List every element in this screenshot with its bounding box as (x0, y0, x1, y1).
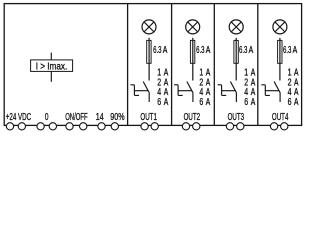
channel separator wall 3 (257, 4, 259, 126)
svg-text:A: A (206, 45, 211, 56)
svg-text:A: A (206, 97, 211, 108)
switch actuator hook channel 3 (218, 85, 227, 96)
OUT3 terminal a (226, 123, 233, 130)
terminal 90% (111, 123, 118, 130)
OUT2 terminal a (182, 123, 189, 130)
svg-text:A: A (293, 45, 298, 56)
fuse F4 6.3 A (278, 40, 282, 63)
svg-text:90%: 90% (110, 112, 124, 123)
wire switch to OUT2 (192, 92, 194, 102)
svg-text:I > Imax.: I > Imax. (36, 62, 68, 73)
tap label 6 A channel 3 (244, 97, 255, 108)
svg-text:6: 6 (199, 97, 203, 108)
wire lamp to fuse channel 3 (235, 38, 237, 81)
svg-text:OUT1: OUT1 (140, 112, 157, 123)
switch actuator hook channel 4 (261, 85, 270, 96)
svg-text:14: 14 (96, 112, 104, 123)
fuse rating label 6.3 A channel 3 (239, 45, 253, 56)
svg-text:A: A (249, 45, 254, 56)
terminal 14 (98, 123, 105, 130)
tap label 6 A channel 1 (157, 97, 168, 108)
svg-text:6: 6 (157, 97, 161, 108)
switch actuator hook channel 2 (174, 85, 183, 96)
svg-text:ON/OFF: ON/OFF (65, 112, 87, 123)
svg-text:6: 6 (244, 97, 248, 108)
channel separator wall 2 (213, 4, 215, 126)
0 V terminal b (49, 123, 56, 130)
tap label 6 A channel 2 (199, 97, 210, 108)
fuse rating label 6.3 A channel 1 (153, 45, 167, 56)
svg-text:6.3: 6.3 (239, 45, 248, 56)
fuse rating label 6.3 A channel 2 (196, 45, 210, 56)
OUT2 terminal b (193, 123, 200, 130)
svg-text:A: A (163, 45, 168, 56)
actuator linkage channel 1 (134, 90, 148, 92)
tap label 6 A channel 4 (288, 97, 299, 108)
tap label 4 A channel 2 (199, 87, 210, 98)
svg-text:+24 VDC: +24 VDC (6, 112, 31, 123)
control block right edge wall (127, 4, 129, 126)
wire switch to OUT4 (279, 92, 281, 102)
wire lamp to fuse channel 4 (279, 38, 281, 81)
indicator lamp channel 4 (273, 20, 287, 34)
svg-text:6.3: 6.3 (196, 45, 205, 56)
indicator lamp channel 3 (229, 20, 243, 34)
svg-text:0: 0 (45, 112, 49, 123)
channel OUT3 group (218, 20, 256, 130)
wire switch to OUT3 (235, 92, 237, 102)
switch blade channel 3 (230, 82, 236, 93)
switch actuator hook channel 1 (130, 85, 139, 96)
svg-text:OUT4: OUT4 (272, 112, 289, 123)
fuse F3 6.3 A (234, 40, 238, 63)
svg-text:6.3: 6.3 (153, 45, 162, 56)
0 V terminal a (37, 123, 44, 130)
tap label 2 A channel 1 (157, 77, 168, 88)
actuator linkage channel 3 (222, 90, 236, 92)
channel OUT4 group (261, 20, 298, 130)
indicator lamp channel 2 (186, 20, 200, 34)
actuator linkage channel 2 (178, 90, 192, 92)
overcurrent detector block I > Imax (31, 60, 73, 72)
actuator linkage channel 4 (265, 90, 279, 92)
OUT4 terminal b (281, 123, 288, 130)
channel OUT1 group (130, 20, 168, 130)
OUT4 terminal a (270, 123, 277, 130)
fuse rating label 6.3 A channel 4 (283, 45, 297, 56)
tap label 1 A channel 4 (288, 67, 299, 78)
svg-text:6.3: 6.3 (283, 45, 292, 56)
svg-text:6: 6 (288, 97, 292, 108)
wire lamp to fuse channel 2 (192, 38, 194, 81)
channel OUT2 group (174, 20, 210, 130)
ON/OFF terminal b (80, 123, 87, 130)
tap label 2 A channel 3 (244, 77, 255, 88)
switch blade channel 1 (143, 82, 149, 93)
tap label 1 A channel 3 (244, 67, 255, 78)
fuse F1 6.3 A (147, 40, 151, 63)
tap label 2 A channel 2 (199, 77, 210, 88)
+24 VDC terminal b (18, 123, 25, 130)
OUT1 terminal a (141, 123, 148, 130)
wire into overcurrent block (50, 53, 52, 60)
+24 VDC terminal a (6, 123, 13, 130)
wire switch to OUT1 (148, 92, 150, 102)
tap label 2 A channel 4 (288, 77, 299, 88)
channel separator wall 1 (171, 4, 173, 126)
tap label 4 A channel 3 (244, 87, 255, 98)
module outline frame (4, 4, 301, 126)
indicator lamp channel 1 (142, 20, 156, 34)
switch blade channel 4 (274, 82, 280, 93)
tap label 1 A channel 2 (199, 67, 210, 78)
tap label 4 A channel 1 (157, 87, 168, 98)
svg-text:A: A (294, 97, 299, 108)
svg-text:A: A (251, 97, 256, 108)
tap label 4 A channel 4 (288, 87, 299, 98)
svg-text:OUT2: OUT2 (184, 112, 201, 123)
OUT3 terminal b (237, 123, 244, 130)
svg-text:OUT3: OUT3 (228, 112, 245, 123)
ON/OFF terminal a (66, 123, 73, 130)
wire out of overcurrent block (50, 71, 52, 81)
svg-text:A: A (164, 97, 169, 108)
switch blade channel 2 (187, 82, 193, 93)
OUT1 terminal b (151, 123, 158, 130)
wire lamp to fuse channel 1 (148, 38, 150, 81)
fuse F2 6.3 A (190, 40, 194, 63)
tap label 1 A channel 1 (157, 67, 168, 78)
